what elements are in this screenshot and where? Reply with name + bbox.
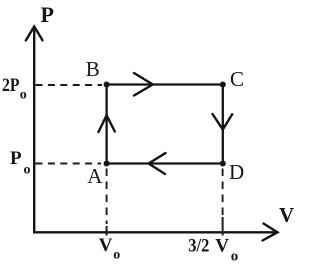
node B [104,82,110,88]
wire: cycle edge A to B (left side of rectangle) [105,85,107,164]
node C [220,82,226,88]
node D [220,161,226,167]
node A [104,161,110,167]
V axis arrowhead [263,224,278,241]
svg-text:o: o [20,88,27,103]
svg-text:V: V [215,236,229,257]
svg-text:o: o [113,248,120,263]
svg-text:V: V [279,203,294,227]
dashed guide line at 3/2 Vo [222,169,224,216]
svg-text:V: V [99,235,113,256]
svg-text:C: C [230,67,244,91]
svg-text:2P: 2P [2,75,20,96]
P axis (vertical) [33,27,35,234]
tick at 3/2 Vo crossing V axis [222,217,224,236]
arrow A to B (pointing up) [99,115,115,132]
svg-text:o: o [231,249,239,265]
dashed guide line at Po level [36,163,102,165]
P axis arrowhead [26,27,43,41]
dashed guide line at 2Po level [36,84,103,86]
svg-text:o: o [24,163,31,178]
svg-text:3/2: 3/2 [188,236,209,257]
V axis (horizontal) [33,231,276,233]
wire: cycle edge B to C (top side) [107,83,223,85]
svg-text:A: A [87,164,103,188]
dashed guide line at Vo [106,169,108,225]
wire: cycle edge C to D (right side) [222,85,224,164]
svg-text:B: B [86,57,100,81]
arrow B to C (pointing right) [134,73,153,96]
tick at Vo crossing V axis [106,226,108,236]
svg-text:P: P [41,2,54,27]
wire: cycle edge D to A (bottom side) [107,162,223,164]
arrow C to D (pointing down) [213,114,233,130]
svg-text:D: D [229,160,244,184]
arrow D to A (pointing left) [149,153,166,174]
svg-text:P: P [10,148,22,169]
